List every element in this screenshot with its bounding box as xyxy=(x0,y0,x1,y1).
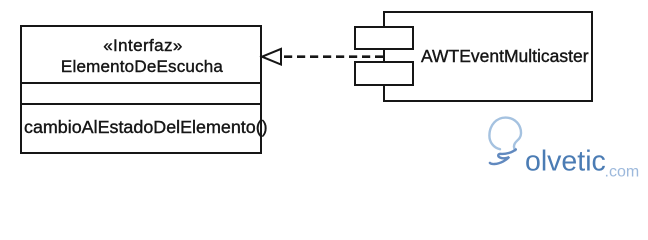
logo letter S swash xyxy=(490,149,516,164)
wire dashed shaft xyxy=(284,55,387,58)
compartment separator line 1 xyxy=(20,82,262,84)
name compartment text ElementoDeEscucha xyxy=(23,57,261,77)
operation label cambioAlEstadoDelElemento() xyxy=(24,117,268,137)
component label AWTEventMulticaster xyxy=(421,47,589,65)
Solvetic logo xyxy=(480,112,648,184)
logo light bulb outline xyxy=(489,118,521,151)
component tab 2 (required interface rectangle) xyxy=(354,61,414,86)
compartment separator line 2 xyxy=(20,103,262,105)
interface class box ElementoDeEscucha xyxy=(20,25,262,154)
component box AWTEventMulticaster xyxy=(383,11,593,102)
open triangle arrowhead xyxy=(262,49,281,65)
svg-text:.com: .com xyxy=(605,163,640,180)
component tab 1 (provided interface rectangle) xyxy=(354,26,414,50)
name compartment text «Interfaz» xyxy=(24,36,262,56)
svg-text:olvetic: olvetic xyxy=(525,145,606,177)
realization dashed arrow from component to interface xyxy=(0,0,648,184)
